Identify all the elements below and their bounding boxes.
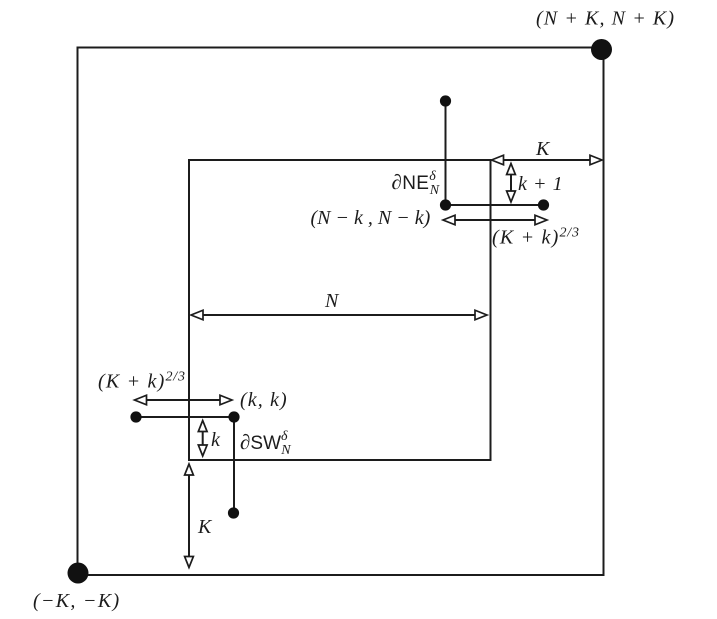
corner dot (N+K,N+K) (591, 39, 612, 60)
NE dot (N-k,N-k) (440, 199, 451, 210)
arrow (K+k)^2/3 SW (135, 395, 233, 405)
NE dot top (440, 95, 451, 106)
arrow N (191, 310, 487, 320)
SW vertical segment through (k,k) (233, 417, 235, 513)
inner square [0,0] to [N,N] (189, 160, 491, 460)
svg-text:(N + K, N + K): (N + K, N + K) (536, 8, 675, 30)
SW dot left (130, 411, 141, 422)
svg-text:(−K, −K): (−K, −K) (33, 590, 120, 612)
outer square [-K,-K] to [N+K,N+K] (78, 48, 604, 576)
svg-text:∂NEδN: ∂NEδN (392, 169, 440, 198)
SW horizontal segment through (k,k) (136, 416, 234, 418)
arrow K (bottom left) (185, 464, 194, 568)
corner dot (-K,-K) (68, 563, 89, 584)
svg-text:∂SWδN: ∂SWδN (240, 429, 291, 458)
svg-text:K: K (535, 138, 551, 160)
arrow k (198, 421, 207, 457)
svg-text:k + 1: k + 1 (518, 173, 563, 195)
NE vertical segment through (N-k,N-k) (445, 101, 447, 205)
arrow K (top right) (492, 155, 603, 165)
svg-text:K: K (197, 516, 213, 538)
SW dot bottom (228, 507, 239, 518)
svg-text:N: N (324, 290, 340, 312)
NE horizontal segment through (N-k,N-k) (446, 204, 544, 206)
arrow (K+k)^2/3 NE (443, 215, 547, 225)
arrow k+1 (507, 164, 516, 203)
SW dot (k,k) (228, 411, 239, 422)
svg-text:(N − k , N − k): (N − k , N − k) (311, 207, 431, 229)
svg-text:(k, k): (k, k) (240, 389, 288, 411)
NE dot right (538, 199, 549, 210)
svg-text:k: k (211, 429, 221, 451)
